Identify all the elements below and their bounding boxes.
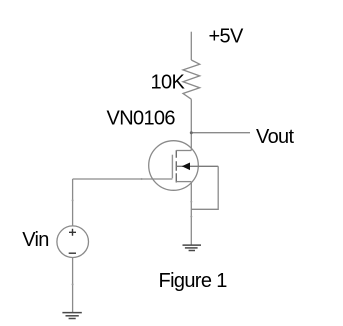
wire gate lead: [73, 178, 173, 180]
wire +5V lead: [190, 32, 192, 60]
transistor Q1 gate bar: [171, 155, 173, 179]
transistor Q1 body circle: [149, 141, 199, 191]
svg-text:+5V: +5V: [209, 26, 245, 48]
svg-text:Vout: Vout: [256, 126, 295, 148]
wire source to ground: [190, 182, 192, 245]
svg-text:10K: 10K: [151, 72, 186, 94]
node Vout wire: [191, 132, 250, 134]
wire resistor to drain: [190, 99, 192, 150]
wire Vin to ground: [72, 258, 74, 313]
transistor Q1 body line: [176, 165, 218, 167]
transistor Q1 drain stub: [176, 150, 191, 152]
source Vin plus sign: [69, 229, 76, 236]
wire gate to Vin: [72, 179, 74, 226]
ground (source): [183, 245, 202, 250]
svg-text:VN0106: VN0106: [107, 108, 176, 130]
transistor Q1 source stub: [176, 181, 191, 183]
node junction dot at Vout branch: [190, 131, 193, 134]
svg-text:Figure 1: Figure 1: [159, 270, 228, 292]
resistor R1 10K: [183, 60, 200, 99]
transistor Q1 body arrowhead: [182, 163, 190, 171]
wire body to source loop: [191, 166, 218, 209]
source Vin circle: [57, 226, 89, 258]
svg-text:Vin: Vin: [22, 229, 49, 251]
source Vin minus sign: [69, 252, 76, 254]
transistor Q1 channel dashes: [175, 150, 177, 182]
ground (Vin): [62, 313, 81, 319]
